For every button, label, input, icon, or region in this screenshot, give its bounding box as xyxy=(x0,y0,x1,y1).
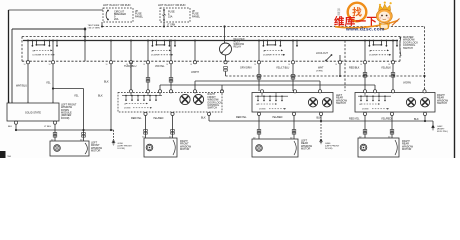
svg-text:BREAKER: BREAKER xyxy=(114,13,126,16)
svg-text:YEL: YEL xyxy=(46,82,51,85)
svg-text:PANEL: PANEL xyxy=(135,15,144,18)
svg-text:SOLID STATE: SOLID STATE xyxy=(25,112,41,115)
svg-text:YEL: YEL xyxy=(74,95,79,98)
svg-text:DOWN: DOWN xyxy=(263,55,270,57)
svg-text:MOTOR: MOTOR xyxy=(402,148,411,151)
svg-text:16: 16 xyxy=(24,64,26,66)
svg-text:BLK: BLK xyxy=(104,81,109,84)
svg-text:BLK: BLK xyxy=(8,126,13,128)
svg-text:YEL/BLK: YEL/BLK xyxy=(381,66,391,69)
svg-text:HOT IN ACCY OR RUN: HOT IN ACCY OR RUN xyxy=(158,3,186,7)
svg-text:UP: UP xyxy=(151,51,155,53)
svg-text:16: 16 xyxy=(190,64,192,66)
svg-text:MOTOR: MOTOR xyxy=(91,149,100,152)
svg-text:DOOR): DOOR) xyxy=(61,117,70,120)
svg-text:DOWN: DOWN xyxy=(33,55,40,57)
svg-text:UP: UP xyxy=(263,51,267,53)
svg-text:TURQ/BLU: TURQ/BLU xyxy=(124,65,137,68)
svg-text:20A: 20A xyxy=(114,18,119,21)
svg-text:DOWN: DOWN xyxy=(369,55,376,57)
svg-text:WHT/BLU: WHT/BLU xyxy=(16,84,27,87)
svg-text:SWITCH: SWITCH xyxy=(437,102,447,105)
svg-text:(T RR): (T RR) xyxy=(316,71,323,73)
svg-text:SWITCH: SWITCH xyxy=(403,47,413,50)
svg-text:16: 16 xyxy=(254,64,256,66)
svg-text:PANEL: PANEL xyxy=(192,15,201,18)
svg-text:WHT: WHT xyxy=(318,66,324,69)
svg-text:KICK PNL): KICK PNL) xyxy=(437,131,448,133)
svg-text:VIO/YEL: VIO/YEL xyxy=(155,65,165,68)
svg-text:SWITCH: SWITCH xyxy=(336,102,346,105)
svg-text:16: 16 xyxy=(106,64,108,66)
svg-text:GRY/ORN: GRY/ORN xyxy=(240,66,252,69)
svg-text:YEL/RED: YEL/RED xyxy=(153,117,164,120)
svg-text:15A: 15A xyxy=(168,15,173,18)
svg-text:16: 16 xyxy=(49,64,51,66)
svg-text:LOCK-OUT: LOCK-OUT xyxy=(316,53,328,55)
svg-text:TAB: TAB xyxy=(7,155,12,158)
svg-text:V/ORN: V/ORN xyxy=(403,82,411,85)
svg-text:16: 16 xyxy=(360,64,362,66)
svg-text:SWITCH: SWITCH xyxy=(208,107,218,110)
svg-text:DOOR): DOOR) xyxy=(325,148,333,150)
svg-text:RED/BLK: RED/BLK xyxy=(349,66,360,69)
svg-text:MOTOR: MOTOR xyxy=(301,147,310,150)
svg-text:BLK: BLK xyxy=(98,95,103,98)
svg-text:16: 16 xyxy=(143,64,145,66)
svg-text:www.dzsc.com: www.dzsc.com xyxy=(345,27,385,33)
svg-text:RED/YEL: RED/YEL xyxy=(349,118,360,121)
svg-text:YEL/LT BLU: YEL/LT BLU xyxy=(276,66,290,69)
svg-text:16: 16 xyxy=(335,64,337,66)
svg-text:RED/YEL: RED/YEL xyxy=(131,117,142,120)
svg-text:16: 16 xyxy=(166,64,168,66)
svg-text:RED/YEL: RED/YEL xyxy=(236,116,247,119)
svg-text:DOWN: DOWN xyxy=(124,108,131,110)
svg-text:#35 LT GRN: #35 LT GRN xyxy=(88,28,100,30)
svg-text:V/WHT: V/WHT xyxy=(191,71,199,74)
svg-text:UP: UP xyxy=(369,51,373,53)
svg-text:LT BLU: LT BLU xyxy=(44,126,52,128)
svg-text:DOWN: DOWN xyxy=(151,55,158,57)
svg-text:DOWN: DOWN xyxy=(259,109,266,111)
svg-text:DOOR): DOOR) xyxy=(118,148,126,150)
svg-text:DOWN: DOWN xyxy=(362,109,369,111)
svg-text:UP: UP xyxy=(33,51,37,53)
svg-text:YEL/RED: YEL/RED xyxy=(272,116,283,119)
svg-text:BLK: BLK xyxy=(414,118,419,121)
svg-text:YEL/RED: YEL/RED xyxy=(381,118,392,121)
svg-text:MOTOR: MOTOR xyxy=(180,148,189,151)
svg-text:BLK: BLK xyxy=(201,117,206,120)
svg-text:RELAY: RELAY xyxy=(234,46,242,49)
svg-text:HOT IN ACCY OR RUN: HOT IN ACCY OR RUN xyxy=(103,3,131,7)
